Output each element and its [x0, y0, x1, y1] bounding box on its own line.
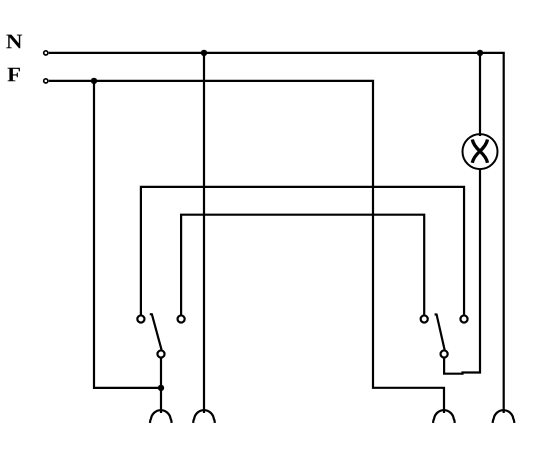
wire lamp bottom to switch S2 common [444, 169, 480, 374]
junction dot S1 common / socket 1 phase [158, 385, 164, 391]
switch S2 lever [435, 314, 445, 350]
wire N bus with right drop to socket 2 neutral [49, 53, 504, 413]
lamp X1 cross [472, 140, 487, 163]
wire N drop to socket 1 neutral [203, 53, 205, 413]
junction dot F left drop [91, 78, 97, 84]
wire F left drop to switch S1 junction [94, 81, 161, 388]
switch S1 terminal 1 [137, 315, 144, 322]
switch S2 common terminal [441, 350, 448, 357]
socket arc 4 (socket outlet 2 neutral) [493, 410, 515, 423]
socket arc 2 (socket outlet 1 neutral) [193, 410, 215, 423]
wire traveler B (S1 right terminal to S2 left terminal) [181, 215, 424, 315]
label N [6, 35, 22, 49]
switch S1 terminal 2 [178, 315, 185, 322]
junction dot N drop [201, 50, 207, 56]
socket arc 1 (socket outlet 1 phase) [150, 410, 172, 423]
junction dot N lamp [477, 50, 483, 56]
wire switch S1 common to junction and socket 1 phase [160, 358, 162, 413]
wire N junction to lamp top [479, 53, 481, 136]
terminal circle F supply [44, 79, 48, 83]
switch S1 common terminal [157, 350, 164, 357]
switch S1 lever [150, 314, 162, 350]
switch S2 terminal 1 [421, 315, 428, 322]
socket arc 3 (socket outlet 2 phase) [433, 410, 455, 423]
lamp X1 circle [463, 134, 498, 169]
wire traveler A (S1 left terminal to S2 right terminal) [141, 187, 464, 315]
label F [8, 68, 20, 82]
wire F bus with right drop to socket 2 phase [49, 81, 444, 413]
terminal circle N supply [44, 51, 48, 55]
switch S2 terminal 2 [460, 315, 467, 322]
